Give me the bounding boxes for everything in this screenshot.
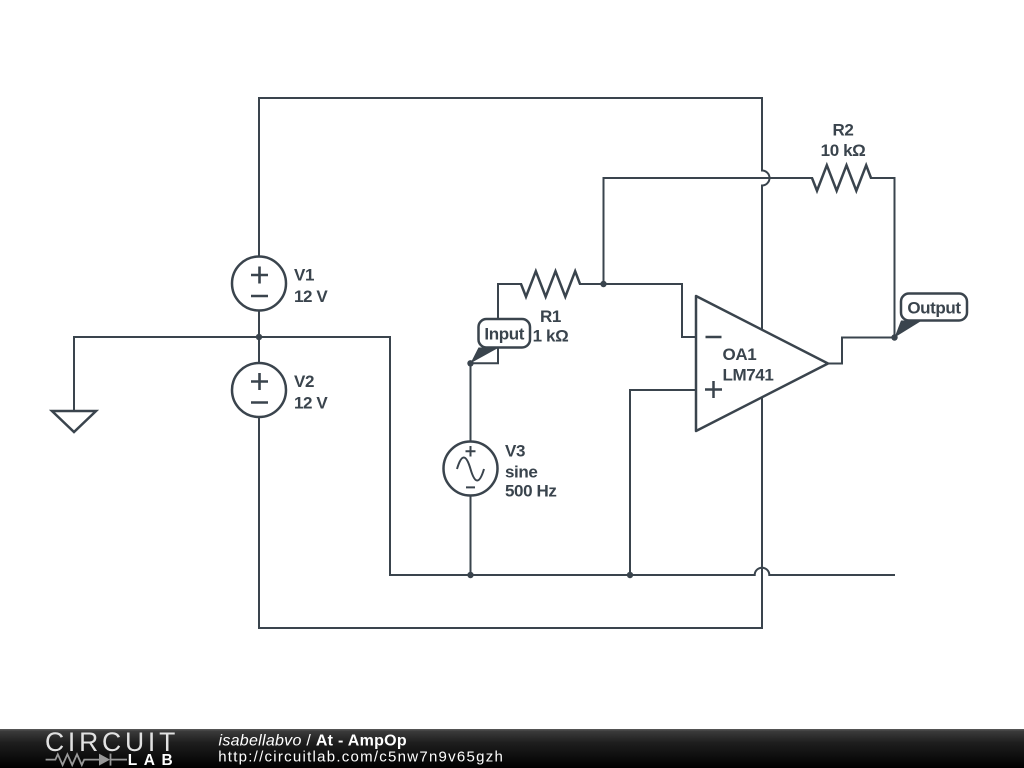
svg-text:R1: R1	[540, 307, 561, 326]
svg-text:R2: R2	[833, 120, 854, 139]
svg-text:LM741: LM741	[723, 366, 774, 385]
svg-text:OA1: OA1	[723, 345, 757, 364]
svg-text:1 kΩ: 1 kΩ	[533, 327, 569, 346]
svg-text:12 V: 12 V	[294, 287, 328, 306]
svg-text:isabellabvo / At - AmpOp: isabellabvo / At - AmpOp	[219, 733, 407, 750]
svg-text:12 V: 12 V	[294, 393, 328, 412]
svg-text:10 kΩ: 10 kΩ	[821, 141, 866, 160]
svg-text:500 Hz: 500 Hz	[505, 482, 556, 501]
svg-text:http://circuitlab.com/c5nw7n9v: http://circuitlab.com/c5nw7n9v65gzh	[218, 749, 504, 766]
svg-text:sine: sine	[505, 462, 537, 481]
svg-text:Output: Output	[907, 298, 961, 317]
svg-text:V3: V3	[505, 442, 525, 461]
svg-text:LAB: LAB	[128, 752, 180, 768]
svg-text:V2: V2	[294, 372, 314, 391]
svg-text:V1: V1	[294, 266, 314, 285]
svg-text:Input: Input	[484, 325, 524, 344]
